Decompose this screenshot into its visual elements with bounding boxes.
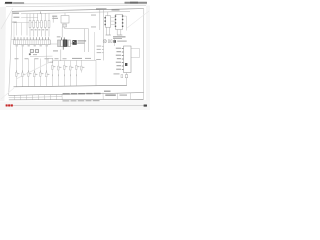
header title right — [125, 2, 148, 4]
switch S1 box — [61, 16, 69, 24]
right top label a — [96, 8, 107, 9]
right feed wire A — [99, 10, 101, 31]
wire fuse column 4 — [40, 13, 42, 36]
wire K11 right drop — [125, 16, 127, 30]
title cell text 2 — [120, 95, 128, 96]
wire bus to cluster — [50, 43, 58, 45]
lamp note — [117, 41, 127, 42]
ECU J1 box — [124, 46, 132, 73]
net label mid a — [91, 14, 96, 17]
connector X1 hatched — [58, 40, 61, 47]
wire column c2 — [21, 47, 23, 87]
wire column c4 — [33, 59, 35, 87]
wire column c6 — [45, 47, 47, 87]
wire column c5 — [39, 59, 41, 87]
wire fuse column 6 — [48, 13, 50, 36]
wire K10 feed — [107, 12, 109, 16]
title block bottom line — [9, 98, 144, 101]
right text row — [113, 36, 126, 37]
wire K10-K11 c — [111, 24, 116, 26]
left group labels — [17, 73, 49, 74]
wire column c9 — [63, 61, 65, 86]
switch S1 label — [52, 16, 57, 17]
connector strip X10 — [14, 40, 50, 45]
motor M1 — [52, 66, 54, 70]
page background — [0, 0, 150, 110]
motor M3 — [64, 66, 66, 70]
legend stamp — [72, 40, 76, 45]
connector bar a — [106, 34, 111, 37]
wire J1 loop — [131, 49, 140, 58]
fuse F4 — [40, 21, 42, 28]
wire mid drop — [94, 32, 96, 60]
schematic frame left — [9, 11, 13, 95]
connector X0 hatched — [63, 24, 67, 27]
J1 internal mark — [125, 63, 127, 66]
fuse F2 — [33, 21, 35, 28]
wire col x21.5 — [21, 23, 23, 36]
wire U1 drop — [60, 50, 62, 62]
wire col x16.5 up — [16, 23, 18, 36]
wire K10-K11 a — [111, 17, 116, 19]
J1 pin ticks — [122, 49, 124, 70]
crease bottom-left — [1, 88, 14, 99]
svg-text:con.: con. — [12, 39, 16, 41]
caption under title block — [63, 100, 100, 101]
net label 15 — [13, 17, 19, 18]
switch S11 — [22, 73, 24, 77]
wire column c3 — [27, 59, 29, 87]
wire fuse column 2 — [33, 14, 35, 37]
resistor R1 ticks — [108, 40, 109, 43]
switch S13 — [34, 73, 36, 77]
wire B tick labels — [96, 46, 101, 60]
wire column c7 — [51, 61, 53, 86]
wire J1 down — [126, 73, 128, 86]
footer rule — [13, 104, 147, 106]
lower component boxes left group — [16, 72, 48, 76]
net label 50 — [12, 22, 17, 23]
connector X6 — [121, 75, 123, 78]
fuse F5 — [44, 21, 46, 28]
connector X2 — [61, 40, 63, 47]
connector X3 — [67, 40, 70, 47]
wire col x27 — [26, 14, 28, 36]
wire S1 to loop — [65, 27, 89, 29]
wire column c8 — [57, 61, 59, 86]
wire K10-K11 b — [111, 20, 116, 22]
switch S14 — [40, 72, 42, 76]
relay K8 — [35, 50, 38, 53]
net label mid b — [91, 26, 96, 29]
title block mid line — [9, 97, 62, 98]
node junction tick — [40, 12, 42, 14]
motor M5 — [76, 66, 78, 70]
wire right mid vertical — [95, 60, 97, 85]
right group pin ticks — [52, 74, 76, 76]
wire K11 right a — [123, 15, 127, 17]
label near X6 — [114, 73, 120, 74]
scan page top edge — [6, 5, 146, 6]
K11 pins — [115, 15, 124, 27]
right top label b — [112, 9, 120, 10]
wire S1 down — [61, 27, 63, 37]
U1 pin top a — [61, 37, 63, 40]
mid row labels — [15, 57, 67, 60]
fuse value labels — [31, 29, 48, 30]
control unit U1 dark — [63, 40, 67, 47]
sender G1 box — [48, 58, 53, 62]
wire B ticks — [102, 46, 104, 53]
lower columns — [16, 47, 81, 87]
header title left — [5, 2, 12, 4]
diode D1 — [125, 75, 127, 78]
wire fuse column 1 — [29, 14, 31, 37]
fuse F3 — [37, 21, 39, 28]
connector bar b — [117, 34, 122, 37]
wire S1 feed — [64, 13, 66, 16]
title block text — [63, 93, 101, 95]
legend note line 1 — [78, 40, 87, 41]
label row2 — [33, 53, 37, 56]
wire K10 down b — [108, 27, 110, 35]
schematic frame top — [12, 9, 144, 12]
right group labels — [53, 66, 84, 67]
crease top-left — [1, 8, 13, 29]
wire K10 down a — [106, 27, 108, 35]
wire K11 down a — [116, 30, 118, 36]
right feed wire B — [103, 9, 105, 60]
relay K7 — [30, 50, 33, 53]
title block top line — [9, 93, 144, 96]
K10 pins — [105, 17, 106, 25]
switch S10 — [16, 72, 17, 76]
relay K10 box — [105, 16, 110, 27]
wire column c11 — [75, 60, 77, 85]
title block dividers — [15, 93, 131, 100]
mid bus label — [72, 58, 82, 59]
net label B+ — [13, 13, 20, 14]
U1 pin bottom — [62, 47, 64, 50]
schematic frame right — [143, 9, 145, 100]
wire column c1 — [15, 47, 17, 87]
lamp H1 — [103, 40, 106, 43]
wire fuse column 5 — [44, 13, 46, 36]
connector pin row — [15, 37, 49, 40]
title block small label — [104, 91, 111, 92]
ground bus bottom — [14, 85, 128, 87]
wire loop left — [84, 29, 86, 52]
wire column c12 — [80, 60, 82, 72]
thermal switch S2 — [29, 53, 31, 55]
crease lower-left — [16, 61, 52, 79]
wire top rail — [21, 11, 130, 13]
crease top-right — [127, 11, 149, 28]
lower component boxes right group — [52, 66, 83, 71]
motor M2 — [58, 66, 60, 70]
wire left col extra — [13, 23, 15, 41]
switch S12 — [28, 72, 30, 76]
wire loop right — [88, 29, 90, 52]
wire lower link — [30, 55, 53, 57]
footer page number — [144, 105, 147, 107]
fuse F6 — [48, 21, 50, 28]
fuse F1 — [29, 21, 31, 28]
U1 pin top b — [63, 37, 65, 39]
wire cluster to loop — [70, 42, 84, 44]
J1 pin labels — [116, 48, 121, 70]
switch S15 — [46, 73, 48, 77]
wire S1 left stub — [52, 16, 54, 23]
wire K11 down b — [120, 30, 122, 36]
wire right drop2 — [114, 39, 116, 47]
wire column c10 — [69, 61, 71, 86]
label below cluster — [53, 50, 58, 51]
label above cluster — [57, 35, 61, 38]
connector strip labels — [16, 44, 48, 47]
header rule — [4, 3, 147, 5]
motor M4 — [70, 66, 72, 70]
motor M6 — [81, 66, 83, 70]
footer logo red — [6, 104, 13, 106]
connector X5 dark — [113, 40, 116, 43]
legend note line 2 — [78, 43, 85, 44]
wire left stub — [14, 21, 43, 24]
left group pin ticks — [16, 70, 46, 72]
title cell text — [105, 94, 116, 96]
wire fuse column 3 — [37, 13, 39, 36]
wire mid bus — [53, 59, 96, 62]
wire second rail — [21, 16, 38, 18]
scan margin shading — [0, 7, 6, 101]
relay K11 box — [116, 14, 123, 29]
